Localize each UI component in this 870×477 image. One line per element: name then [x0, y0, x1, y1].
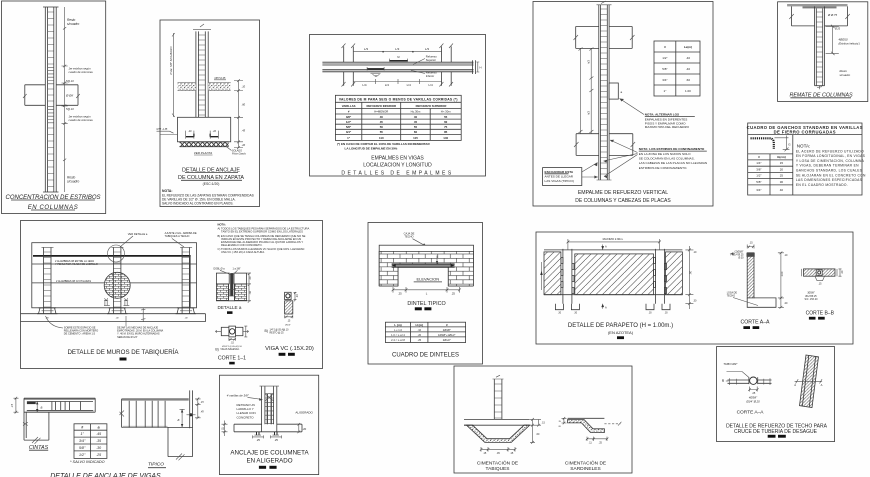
pipe circle section: [722, 377, 758, 384]
svg-text:DINTEL TIPICO: DINTEL TIPICO: [407, 301, 445, 307]
svg-text:s/cuadro: s/cuadro: [67, 180, 79, 184]
svg-text:.20: .20: [784, 302, 788, 305]
svg-text:EN FORMA LONGITUDINAL, EN VIGA: EN FORMA LONGITUDINAL, EN VIGAS: [796, 154, 866, 158]
svg-text:.60: .60: [242, 103, 246, 107]
svg-text:EMPALMES EN VIGAS: EMPALMES EN VIGAS: [371, 156, 424, 162]
cintas beam band: [24, 398, 95, 412]
svg-text:a: a: [41, 406, 43, 410]
svg-text:.35: .35: [96, 439, 101, 443]
svg-text:LOCALIZACION Y LONGITUD: LOCALIZACION Y LONGITUD: [363, 163, 432, 169]
cintas title: [29, 445, 49, 451]
column C4 rungs: [600, 9, 607, 174]
svg-text:20: 20: [780, 167, 784, 171]
svg-text:Superior: Superior: [426, 58, 436, 62]
svg-text:110: 110: [379, 136, 384, 140]
svg-text:REFUERZO SUPERIOR: REFUERZO SUPERIOR: [416, 104, 447, 108]
svg-text:Inferior: Inferior: [426, 74, 434, 78]
sardineles title: [565, 460, 606, 473]
tabiques trench with stipple: [464, 425, 530, 442]
svg-text:DOBL.Ø a: DOBL.Ø a: [214, 267, 226, 270]
cintas left dim: [11, 397, 18, 414]
svg-text:.25: .25: [752, 392, 756, 395]
svg-text:60: 60: [444, 120, 448, 124]
svg-text:VIGA VC (.15X.20): VIGA VC (.15X.20): [265, 346, 314, 352]
svg-text:LA LONGITUD DE EMPALME EN 30%: LA LONGITUD DE EMPALME EN 30%: [345, 146, 398, 150]
note below table: [337, 142, 430, 150]
cuadro dinteles title: [392, 352, 459, 358]
retirar ladrillo text: [237, 403, 256, 420]
aligerado label: [295, 410, 313, 414]
corte A-A left labels: [730, 250, 744, 259]
svg-text:1/2": 1/2": [662, 56, 667, 60]
annotation stirrup zone upper: [66, 67, 93, 84]
corte A-A top dim: [747, 241, 754, 248]
svg-text:60: 60: [414, 130, 418, 134]
svg-text:LAS DIMENSIONES ESPECIFICADAS: LAS DIMENSIONES ESPECIFICADAS: [796, 178, 863, 182]
ganchos table: [748, 135, 793, 195]
svg-text:P/cim.Ganch.: P/cim.Ganch.: [232, 153, 247, 156]
cintas inner bars: [52, 402, 81, 411]
svg-text:.20: .20: [302, 427, 306, 431]
leader text bottom right: [117, 316, 163, 339]
svg-text:L/4: L/4: [385, 83, 390, 87]
svg-text:1/2": 1/2": [79, 453, 86, 457]
svg-text:B): B): [215, 348, 218, 352]
tipico inner bars: [129, 401, 165, 428]
svg-text:Y LOSA DE CIMENTACION, COLUMNA: Y LOSA DE CIMENTACION, COLUMNA: [796, 159, 865, 163]
svg-text:SALVO INDICADO AL CONTRARIO EN: SALVO INDICADO AL CONTRARIO EN PLANOS.: [162, 202, 233, 206]
svg-text:L ≤ 1.0: L ≤ 1.0: [394, 328, 402, 332]
svg-text:.45: .45: [496, 452, 500, 455]
svg-text:85: 85: [444, 130, 448, 134]
svg-text:LAS CABEZAS DE LAS PLACAS NO L: LAS CABEZAS DE LAS PLACAS NO LLEVARAN: [639, 161, 707, 165]
svg-text:1Ø3/8"+1Ø1/2": 1Ø3/8"+1Ø1/2": [438, 333, 456, 337]
svg-text:3/4": 3/4": [662, 78, 667, 82]
svg-text:1.0 < L ≤2.4: 1.0 < L ≤2.4: [391, 333, 405, 337]
beam rect remate: [789, 6, 850, 26]
svg-text:UNA VC (.15X.20) A CADA ALTURA: UNA VC (.15X.20) A CADA ALTURA.: [221, 250, 265, 254]
title block11: [230, 450, 309, 469]
svg-text:Y PENULTIMA HILADA DE LADRILLO: Y PENULTIMA HILADA DE LADRILLO: [55, 263, 98, 266]
svg-text:2.4 < L ≤2.8: 2.4 < L ≤2.8: [391, 338, 405, 342]
svg-text:H≤.30m: H≤.30m: [411, 109, 421, 113]
nota alternar empalmes: [645, 113, 695, 130]
svg-text:NOTA:: NOTA:: [797, 143, 811, 148]
right bracket dim .20: [297, 423, 307, 433]
bottom reinforcement mesh: [180, 142, 229, 147]
top annotation ver detalle a: [120, 232, 148, 247]
svg-text:115: 115: [413, 136, 418, 140]
svg-text:REFUERZO INFERIOR: REFUERZO INFERIOR: [367, 104, 397, 108]
leaders from nota2 to column: [604, 140, 638, 178]
svg-text:S/C .15X.20: S/C .15X.20: [805, 298, 819, 301]
anchor ticks at mid column base: [104, 298, 129, 305]
svg-text:3/8": 3/8": [756, 167, 761, 171]
left column ladder: [42, 247, 54, 313]
svg-text:cuadro de columnas: cuadro de columnas: [69, 70, 94, 74]
dimension line right of column: [62, 7, 68, 192]
bold top beam line: [33, 256, 191, 308]
svg-text:4 Var. 5/8" S/CUADRO: 4 Var. 5/8" S/CUADRO: [169, 46, 173, 75]
section line A-A plan: [794, 379, 822, 387]
svg-text:.25: .25: [256, 438, 260, 442]
tipico right dowel up: [190, 390, 193, 428]
top dimension L/3 segments: [353, 47, 441, 55]
svg-text:a: a: [98, 426, 100, 430]
aligerado slab lines: [234, 424, 302, 432]
svg-text:4Ø3/8": 4Ø3/8": [749, 396, 758, 400]
svg-text:DETALLE DE PARAPETO (H = 1.00m: DETALLE DE PARAPETO (H = 1.00m.): [568, 323, 673, 329]
column C2 rails: [193, 24, 211, 117]
right hatched panel: [666, 252, 683, 295]
bottom dims block11: [253, 435, 282, 442]
svg-text:2Ø3/8": 2Ø3/8": [443, 328, 451, 332]
column 2 castellated: [654, 249, 667, 304]
top dim maximo: [567, 237, 661, 250]
annotation o 0.75: [827, 13, 837, 17]
table Le block4: [654, 41, 700, 96]
left arrow dim: [540, 262, 543, 290]
svg-text:3/4": 3/4": [79, 439, 86, 443]
svg-text:RESTO @.25: RESTO @.25: [270, 333, 285, 335]
tabiques bottom dims: [480, 447, 517, 455]
tabiques title: [477, 460, 518, 473]
detail circle with brick fill: [104, 272, 130, 298]
tubo label: [723, 362, 738, 366]
svg-text:L/4: L/4: [407, 83, 412, 87]
footing pads parapet: [555, 304, 670, 315]
svg-text:Y VIGAS, DEBERAN TERMINAR EN: Y VIGAS, DEBERAN TERMINAR EN: [796, 164, 859, 168]
svg-text:5/8": 5/8": [79, 446, 86, 450]
svg-text:LAS VIGAS (TIPICO): LAS VIGAS (TIPICO): [545, 179, 574, 183]
svg-text:EL ACERO DE REFUERZO UTILIZADO: EL ACERO DE REFUERZO UTILIZADO: [796, 149, 864, 153]
svg-text:VARILLAS: VARILLAS: [342, 104, 356, 108]
table empalmes: [335, 95, 461, 140]
svg-text:s/cuadro: s/cuadro: [840, 73, 851, 77]
tipico beam band: [120, 399, 189, 428]
svg-text:1.00: 1.00: [781, 271, 784, 276]
floor lines: [21, 314, 206, 322]
tipico dim a: [178, 409, 196, 427]
svg-text:.25: .25: [96, 453, 101, 457]
cintas hook leg: [23, 398, 49, 444]
horizontal course lines: [32, 264, 197, 283]
svg-text:.30: .30: [693, 300, 697, 303]
svg-text:.60: .60: [686, 78, 691, 82]
hook bars inside footing: [186, 130, 219, 138]
svg-text:3/8": 3/8": [346, 115, 352, 119]
annotation resto s/cuadro (top): [67, 18, 79, 26]
tipico leg down: [168, 427, 193, 460]
svg-text:50: 50: [380, 125, 384, 129]
svg-text:Ø Ø.75: Ø Ø.75: [827, 13, 837, 17]
annotation 4 estribos: [839, 38, 860, 46]
NTZ label left: [157, 128, 178, 135]
corte 1-1 drawing: [216, 326, 249, 344]
svg-text:.40: .40: [686, 56, 691, 60]
dintel brickwork: [379, 251, 473, 286]
svg-text:45: 45: [380, 120, 384, 124]
svg-text:55: 55: [444, 115, 448, 119]
corte A-A right dim: [778, 251, 788, 308]
ver planta label: [194, 151, 213, 155]
svg-text:.25: .25: [274, 438, 278, 442]
svg-text:TECHO: TECHO: [727, 295, 736, 298]
right dim chain parapet: [685, 246, 697, 309]
svg-text:75: 75: [444, 125, 448, 129]
escuadrar note box: [543, 163, 598, 186]
anchor table: [74, 424, 107, 459]
annotation resto s/cuadro (bottom): [67, 176, 79, 184]
svg-text:(EN AZOTEA): (EN AZOTEA): [608, 330, 634, 335]
svg-text:H=MENOR: H=MENOR: [374, 109, 388, 113]
top annotation ajuste hiladas: [165, 231, 197, 247]
viga vc labels: [265, 324, 314, 355]
svg-text:.10: .10: [242, 85, 246, 89]
viga vc drawing: [285, 292, 299, 322]
beam right end section H: [472, 60, 481, 74]
tipico right dim: [195, 398, 204, 420]
svg-text:Ø.30: Ø.30: [738, 257, 744, 260]
svg-text:1er estribos según: 1er estribos según: [69, 115, 92, 119]
annotation stirrup zone lower: [66, 107, 93, 122]
svg-text:CORTE A–A: CORTE A–A: [737, 410, 765, 416]
svg-text:1/2": 1/2": [756, 174, 761, 178]
svg-text:L/3: L/3: [425, 47, 430, 51]
svg-text:.25: .25: [398, 291, 402, 295]
svg-text:.15: .15: [510, 452, 514, 455]
corte B-B labels: [805, 292, 835, 320]
sardineles bottom dims: [586, 437, 609, 445]
border frame block7: [21, 221, 323, 369]
svg-text:40: 40: [414, 115, 418, 119]
svg-text:TECHO: TECHO: [404, 235, 413, 239]
svg-text:.15: .15: [483, 452, 487, 455]
svg-text:h/3: h/3: [586, 111, 590, 115]
title block4: [575, 190, 671, 204]
dowels below slab: [255, 432, 280, 435]
svg-text:CIMENTACIÓN DE: CIMENTACIÓN DE: [477, 460, 518, 467]
cuadro dinteles table: [385, 322, 465, 342]
title remate: [789, 92, 853, 98]
nota ganchos: [796, 143, 866, 187]
svg-text:B): B): [265, 329, 268, 333]
dintel dim line: [392, 287, 461, 295]
svg-text:DETALLE DE MUROS DE TABIQUERÍA: DETALLE DE MUROS DE TABIQUERÍA: [67, 349, 179, 356]
svg-text:2Ø1/2": 2Ø1/2": [443, 338, 451, 342]
svg-text:CORTE A–A: CORTE A–A: [740, 320, 770, 326]
svg-text:Ø1/4":Ø.20: Ø1/4":Ø.20: [745, 400, 760, 404]
salvo indicado note: [70, 460, 105, 464]
svg-text:40: 40: [380, 115, 384, 119]
svg-text:.45: .45: [96, 432, 101, 436]
beam crossing column C1: [23, 85, 80, 106]
base pads under columns: [37, 308, 196, 320]
section marker A bottom: [601, 304, 607, 310]
svg-text:cuadro de columnas: cuadro de columnas: [69, 118, 94, 122]
svg-text:140: 140: [443, 136, 448, 140]
svg-text:SE COLOCARAN EN LAS COLUMNAS,: SE COLOCARAN EN LAS COLUMNAS,: [639, 157, 695, 161]
svg-text:ALIGERADO: ALIGERADO: [295, 410, 313, 414]
column C1 stirrups (rungs): [48, 12, 54, 187]
svg-text:TABIQUES A TECHO: TABIQUES A TECHO: [165, 234, 190, 238]
svg-text:a: a: [178, 418, 180, 422]
left hatched panel: [544, 252, 561, 295]
svg-text:1 a 3/8": 1 a 3/8": [233, 267, 241, 270]
svg-text:.30: .30: [96, 446, 101, 450]
ground hatch strips: [178, 83, 231, 91]
svg-text:Ø1/4":1@.05,4@.10: Ø1/4":1@.05,4@.10: [222, 346, 242, 348]
svg-text:(Estribos helicoid.): (Estribos helicoid.): [839, 42, 860, 46]
svg-text:L/3: L/3: [364, 47, 369, 51]
svg-text:h/3: h/3: [586, 60, 590, 64]
svg-text:.25: .25: [417, 338, 421, 342]
svg-text:.15: .15: [749, 241, 753, 244]
leader text bottom left: [46, 316, 99, 336]
svg-text:L (m): L (m): [394, 323, 401, 327]
svg-text:1": 1": [664, 89, 667, 93]
svg-text:NOTA: LOS ESTRIBOS DE CONFINA: NOTA: LOS ESTRIBOS DE CONFINAMIENTO: [639, 147, 705, 151]
svg-text:CONCRETO: CONCRETO: [237, 415, 255, 419]
svg-text:G(cm): G(cm): [777, 155, 786, 159]
corte 1-1 labels: [215, 346, 246, 365]
svg-text:4 varillas de 3/8": 4 varillas de 3/8": [227, 393, 250, 397]
svg-text:CUADRO DE DINTELES: CUADRO DE DINTELES: [392, 352, 459, 358]
border frame block2: [160, 20, 260, 207]
svg-text:L/4: L/4: [429, 83, 434, 87]
svg-text:#: #: [81, 426, 83, 430]
svg-text:45: 45: [414, 120, 418, 124]
svg-text:VER PLANTA: VER PLANTA: [194, 151, 212, 155]
svg-text:NTZ -1.35: NTZ -1.35: [157, 128, 168, 131]
svg-text:TIPICO: TIPICO: [148, 462, 164, 468]
svg-text:5@.10: 5@.10: [66, 79, 74, 83]
svg-text:3/4": 3/4": [346, 130, 352, 134]
svg-text:Ø Ø/I: Ø Ø/I: [65, 94, 74, 98]
title block13: [726, 424, 828, 438]
svg-text:SERAN DE Ø 1/4": SERAN DE Ø 1/4": [117, 336, 138, 339]
column C6 rails: [815, 6, 825, 89]
hook leader to pipe: [727, 372, 750, 378]
detalle a drawing: [216, 273, 246, 301]
sardineles dashed line: [604, 422, 621, 426]
top beam block4: [574, 27, 635, 49]
svg-text:1/4":1@.05,4@.10: 1/4":1@.05,4@.10: [270, 329, 290, 331]
border frame block12: [454, 366, 632, 473]
column C1 vertical rails: [43, 7, 59, 192]
column C6 rungs: [816, 12, 822, 82]
border frame block6: [778, 2, 868, 102]
svg-text:DETALLES DE EMPALMES: DETALLES DE EMPALMES: [341, 170, 453, 176]
left dimension 4 var: [169, 33, 175, 117]
svg-text:TANTO EN EL EXTREMO SUPERIOR C: TANTO EN EL EXTREMO SUPERIOR COMO EN LOS…: [221, 230, 303, 234]
svg-text:s/cuadro: s/cuadro: [67, 22, 79, 26]
svg-text:5/8": 5/8": [662, 67, 667, 71]
reinf labels corte: [745, 396, 760, 404]
svg-text:M: M: [375, 74, 377, 78]
svg-text:.90: .90: [690, 270, 693, 274]
svg-text:Refuerzo: Refuerzo: [426, 55, 437, 59]
border frame block9: [536, 232, 853, 344]
column C4 rails: [597, 1, 612, 180]
svg-text:EMPALME DE REFUERZO VERTICAL: EMPALME DE REFUERZO VERTICAL: [578, 190, 668, 196]
svg-text:TABIQUES: TABIQUES: [486, 466, 510, 472]
refuerzo superior label: [413, 55, 437, 65]
right column ladder: [180, 247, 192, 313]
svg-text:A: A: [821, 383, 823, 387]
titles block3: [341, 156, 453, 177]
dintel title: [407, 301, 445, 310]
hook diagram: [751, 136, 792, 152]
svg-text:A: A: [605, 305, 607, 309]
right dimension chain: [234, 79, 246, 149]
border frame block11: [220, 375, 319, 474]
svg-text:ESCUADRAR ESTA: ESCUADRAR ESTA: [545, 170, 574, 174]
detalle a dims: [247, 273, 252, 303]
border frame block3: [310, 35, 486, 177]
svg-text:CORTE 1–1: CORTE 1–1: [218, 356, 246, 362]
svg-text:NPT-0.45: NPT-0.45: [215, 76, 226, 80]
svg-text:3/4": 3/4": [756, 188, 761, 192]
svg-text:.15: .15: [11, 403, 14, 407]
svg-text:5/8": 5/8": [346, 125, 352, 129]
svg-text:L/3: L/3: [395, 47, 400, 51]
svg-text:CRUCE DE TUBERIA DE DESAGUE: CRUCE DE TUBERIA DE DESAGUE: [734, 429, 818, 435]
corte B-B bar: [802, 269, 845, 286]
lintel bar: [392, 256, 455, 268]
svg-text:H>.30m: H>.30m: [441, 109, 452, 113]
section marker A top: [601, 244, 607, 249]
beam with splices: [322, 62, 473, 72]
title block5: [747, 125, 863, 135]
solado label: [226, 146, 247, 156]
slanted pipe plan: [800, 355, 819, 408]
tipico title: [148, 462, 166, 468]
detalle a title: [218, 305, 242, 314]
sardineles profile: [568, 418, 605, 432]
svg-text:.45: .45: [242, 129, 246, 133]
dim 25 under pipe: [748, 387, 758, 396]
nota muros: [218, 222, 310, 254]
svg-text:MAXIMO 50% DEL REFUERZO: MAXIMO 50% DEL REFUERZO: [645, 125, 690, 129]
svg-text:NOTA:: NOTA:: [162, 189, 172, 193]
main title anclaje vigas: [50, 473, 161, 477]
svg-text:Refuerzo: Refuerzo: [426, 71, 437, 75]
nota estribos confinamiento: [639, 147, 707, 170]
svg-text:ANTES DE LLEGAR: ANTES DE LLEGAR: [545, 174, 574, 178]
svg-text:30: 30: [780, 180, 784, 184]
small circle top detail a: [108, 245, 125, 262]
dim line with tick: [826, 25, 841, 55]
svg-text:VIGAS S/ELEVAC.: VIGAS S/ELEVAC.: [220, 348, 240, 351]
slab lines corte: [728, 378, 772, 385]
svg-text:EN LA ZONA DE LOS NUDOS SOLO: EN LA ZONA DE LOS NUDOS SOLO: [639, 152, 691, 156]
svg-text:5@.10: 5@.10: [66, 107, 74, 111]
column C2 rungs: [198, 35, 205, 115]
svg-text:NOTA: ALTERNAR LOS: NOTA: ALTERNAR LOS: [645, 113, 679, 117]
svg-text:Le(m): Le(m): [684, 45, 692, 49]
column right crossing beam: [439, 44, 453, 87]
top splice bar M: [390, 55, 408, 61]
svg-text:.10: .10: [693, 251, 697, 254]
border frame block8: [368, 223, 483, 365]
sardineles left dims: [558, 417, 567, 428]
corte A-A title b13: [737, 410, 765, 416]
svg-text:EN ALIGERADO: EN ALIGERADO: [246, 458, 292, 465]
leader to note1: [620, 99, 645, 115]
svg-text:DE FIERRO CORRUGADAS: DE FIERRO CORRUGADAS: [774, 130, 836, 135]
svg-text:40: 40: [780, 188, 784, 192]
